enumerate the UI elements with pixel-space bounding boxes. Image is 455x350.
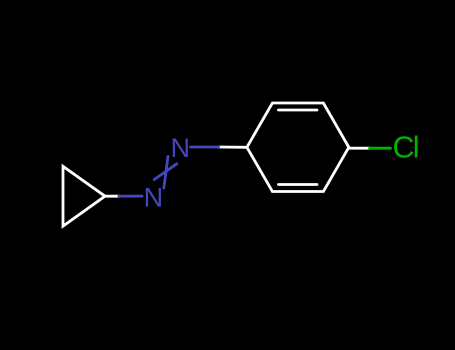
svg-text:Cl: Cl: [393, 131, 418, 165]
svg-text:N: N: [171, 133, 191, 163]
svg-text:N: N: [144, 183, 164, 213]
